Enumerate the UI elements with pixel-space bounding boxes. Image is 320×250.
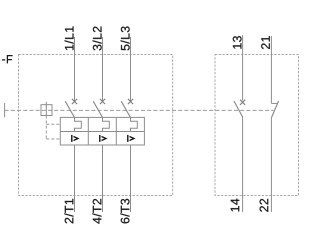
contact blade pole 2 <box>93 101 102 117</box>
magnetic trip label I> pole 3 <box>127 135 129 142</box>
contact blade aux NC <box>272 101 279 118</box>
right enclosure (dashed outline of aux contact block) <box>215 55 299 196</box>
terminal label 13 <box>233 36 242 49</box>
contact cross pole 2 <box>100 99 105 104</box>
wire 6/T3 <box>130 145 132 212</box>
terminal label 22 <box>260 199 269 212</box>
magnetic trip label I> pole 1 <box>71 135 73 142</box>
terminal label 1/L1 <box>65 27 74 50</box>
wire 1/L1 <box>74 37 76 101</box>
wire 5/L3 <box>130 37 132 101</box>
wire 3/L2 <box>102 37 104 101</box>
contact cross pole 1 <box>72 99 77 104</box>
wire 4/T2 <box>102 145 104 212</box>
wire 22 <box>270 118 272 213</box>
terminal label 21 <box>261 36 270 49</box>
contact cross pole 3 <box>128 99 133 104</box>
magnetic trip label I> pole 2 <box>99 135 101 142</box>
trip unit pole divider 1 <box>87 117 89 145</box>
left enclosure (dashed outline of breaker) <box>19 55 173 196</box>
contact blade aux NO <box>234 101 243 117</box>
trip linkage vertical dashed <box>45 116 47 140</box>
trip unit box <box>60 117 144 145</box>
thermal element pole 3 <box>131 117 138 131</box>
contact cross aux NO <box>240 100 245 105</box>
trip unit row divider <box>60 131 144 133</box>
terminal label 5/L3 <box>121 26 130 50</box>
wire 21 <box>270 36 272 103</box>
terminal label 6/T3 <box>120 199 129 224</box>
contact blade pole 1 <box>65 101 74 117</box>
contact blade pole 3 <box>121 101 130 117</box>
wire 13 <box>242 35 244 101</box>
terminal label 2/T1 <box>64 199 73 223</box>
wire 2/T1 <box>74 145 76 212</box>
terminal label 4/T2 <box>92 199 101 224</box>
fixed contact bar aux NC <box>271 102 277 104</box>
terminal label 3/L2 <box>93 27 102 51</box>
breaker label -F <box>2 55 13 63</box>
trip linkage branch to magnetic row <box>46 138 60 140</box>
trip unit pole divider 2 <box>115 117 117 145</box>
operator square vertical centerline <box>45 102 47 116</box>
thermal element pole 2 <box>103 117 110 131</box>
thermal element pole 1 <box>75 117 82 131</box>
mechanical linkage tick (left end) <box>4 103 6 117</box>
wire 14 <box>242 117 244 212</box>
operator square <box>41 105 52 116</box>
terminal label 14 <box>231 199 239 212</box>
mechanical linkage dashed line <box>5 109 274 111</box>
trip linkage branch to thermal row <box>46 123 60 125</box>
